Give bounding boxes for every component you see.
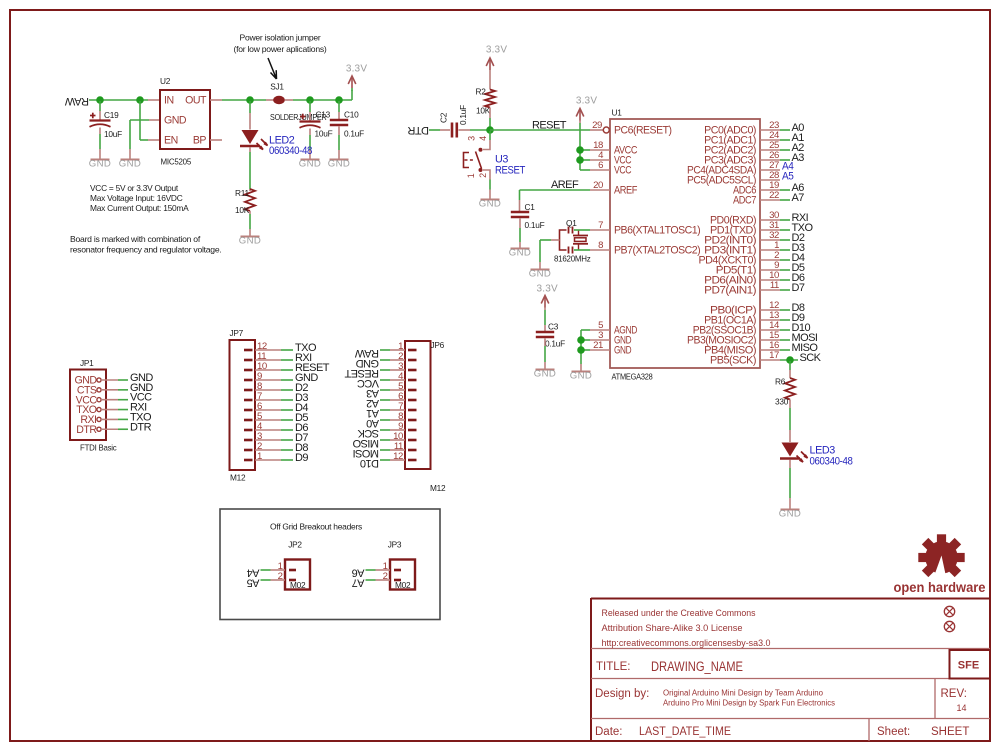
svg-text:A7: A7: [792, 192, 805, 204]
svg-text:81620MHz: 81620MHz: [554, 254, 591, 264]
svg-text:DRAWING_NAME: DRAWING_NAME: [651, 659, 743, 674]
svg-text:C3: C3: [548, 322, 559, 332]
open hardware gear logo: [918, 534, 964, 584]
R11 lower wire: [249, 211, 251, 214]
svg-text:GND: GND: [328, 158, 351, 169]
svg-text:DTR: DTR: [407, 124, 429, 136]
svg-text:JP1: JP1: [80, 358, 94, 368]
svg-text:Power isolation jumper: Power isolation jumper: [240, 33, 321, 43]
svg-text:GND: GND: [89, 158, 112, 169]
JP7 pin 8 / net D2: [244, 389, 253, 392]
capacitor C13: [300, 114, 321, 128]
JP7 pin 1 / net D9: [244, 459, 253, 462]
svg-text:SHEET: SHEET: [931, 726, 969, 738]
node junction RESET: [486, 126, 494, 134]
JP6 pin 9 / net SCK (mirrored label): [408, 429, 417, 432]
crystal Q1 element: [573, 230, 588, 250]
U1 pin 6 VCC: [590, 169, 610, 171]
capacitor C13 lower wire: [309, 129, 311, 136]
svg-text:3.3V: 3.3V: [537, 284, 559, 295]
svg-text:(for low power aplications): (for low power aplications): [234, 44, 328, 54]
svg-text:GND: GND: [614, 345, 632, 357]
svg-text:0.1uF: 0.1uF: [545, 339, 565, 349]
node junction GND pin3: [577, 336, 585, 344]
ground under U2 GND: [119, 158, 142, 169]
JP7 pin 10 / net RESET: [244, 369, 253, 372]
svg-text:EN: EN: [164, 135, 178, 147]
node junction LED2 branch: [246, 96, 254, 104]
svg-text:open hardware: open hardware: [894, 580, 986, 595]
JP7 pin 7 / net D3: [244, 399, 253, 402]
R2 upper stub: [489, 70, 491, 90]
svg-text:3.3V: 3.3V: [346, 64, 368, 75]
svg-text:FTDI Basic: FTDI Basic: [80, 443, 117, 453]
capacitor C10: [330, 120, 348, 125]
supply 3.3V at C3: [537, 284, 559, 308]
svg-text:SFE: SFE: [958, 660, 979, 672]
svg-text:D10: D10: [360, 457, 379, 469]
svg-text:10uF: 10uF: [104, 129, 122, 139]
wire AGND rail: [581, 329, 590, 331]
svg-text:17: 17: [769, 350, 779, 361]
svg-text:14: 14: [957, 703, 967, 713]
solder jumper SJ1: [266, 99, 274, 101]
svg-text:GND: GND: [779, 508, 802, 519]
svg-text:SJ1: SJ1: [270, 82, 284, 92]
U1 pin 5 AGND: [590, 329, 610, 331]
svg-text:RAW: RAW: [64, 95, 89, 107]
svg-text:PB6(XTAL1TOSC1): PB6(XTAL1TOSC1): [614, 225, 700, 237]
SFE box: [950, 650, 991, 679]
svg-text:JP6: JP6: [431, 340, 445, 350]
node junction AVCC: [576, 146, 584, 154]
capacitor C13 wire: [309, 101, 311, 112]
annotation arrow to SJ1: [268, 58, 277, 79]
svg-text:RESET: RESET: [532, 120, 567, 132]
svg-text:R2: R2: [476, 87, 487, 97]
svg-text:M02: M02: [290, 580, 306, 590]
svg-text:AREF: AREF: [551, 179, 579, 191]
switch U3 lever: [476, 152, 482, 169]
title block dividers: [591, 649, 990, 742]
switch U3 upper contact: [479, 148, 483, 152]
svg-text:IN: IN: [164, 95, 174, 107]
JP6 pin 7 / net A1 (mirrored label): [408, 409, 417, 412]
svg-text:3: 3: [467, 136, 477, 141]
connector JP6 box: [405, 341, 431, 469]
svg-text:A5: A5: [782, 171, 794, 183]
JP6 pin 1 / net RAW (mirrored label): [408, 349, 417, 352]
ground under C3: [534, 368, 557, 379]
svg-text:A5: A5: [247, 576, 260, 588]
svg-text:12: 12: [393, 451, 403, 462]
JP6 pin 12 / net D10 (mirrored label): [408, 459, 417, 462]
supply 3.3V top right: [346, 64, 368, 89]
svg-text:ADC7: ADC7: [733, 195, 757, 207]
circled-x icon 2: [944, 621, 954, 631]
connector JP7 box: [230, 340, 256, 470]
resistor R11: [245, 189, 255, 211]
JP7 pin 6 / net D4: [244, 409, 253, 412]
supply 3.3V above R2: [486, 45, 508, 71]
svg-text:LAST_DATE_TIME: LAST_DATE_TIME: [639, 726, 731, 738]
LED3 lower wire: [789, 460, 791, 469]
svg-text:JP3: JP3: [388, 540, 402, 550]
svg-text:4: 4: [478, 136, 488, 141]
svg-text:U1: U1: [612, 108, 623, 118]
JP7 pin 2 / net D8: [244, 449, 253, 452]
circled-x icon 1: [944, 606, 954, 616]
svg-text:BP: BP: [193, 135, 207, 147]
svg-text:060340-48: 060340-48: [810, 456, 853, 468]
LED3: [780, 443, 808, 463]
capacitor C1: [511, 212, 529, 217]
svg-text:3.3V: 3.3V: [486, 45, 508, 56]
node junction at C19: [96, 96, 104, 104]
svg-text:Released under the Creative Co: Released under the Creative Commons: [602, 608, 756, 619]
crystal Q1 bottom cap: [569, 247, 573, 254]
svg-text:8: 8: [598, 240, 603, 251]
svg-text:2: 2: [383, 571, 388, 582]
regulator U2 box: [160, 90, 210, 149]
svg-text:R6: R6: [775, 377, 786, 387]
svg-text:GND: GND: [239, 235, 262, 246]
JP6 pin 8 / net A0 (mirrored label): [408, 419, 417, 422]
JP6 pin 5 / net A3 (mirrored label): [408, 389, 417, 392]
svg-text:GND: GND: [570, 370, 593, 381]
svg-text:11: 11: [770, 280, 779, 291]
svg-text:2: 2: [478, 173, 488, 178]
svg-text:330: 330: [775, 397, 789, 407]
svg-text:Max Current Output: 150mA: Max Current Output: 150mA: [90, 203, 189, 213]
ground under C13: [299, 158, 322, 169]
JP7 pin 5 / net D5: [244, 419, 253, 422]
svg-text:AREF: AREF: [614, 185, 638, 197]
connector JP1 box: [70, 370, 106, 441]
node junction C13: [306, 96, 314, 104]
wire SJ1 to 3.3V: [293, 99, 352, 101]
wire U2 GND pin loop: [149, 119, 160, 121]
capacitor C2: [452, 123, 457, 138]
supply 3.3V at U1: [576, 96, 598, 121]
svg-text:0.1uF: 0.1uF: [344, 129, 364, 139]
title block outline: [591, 598, 990, 741]
wire U2 OUT to SJ1: [210, 99, 222, 101]
svg-text:R11: R11: [235, 188, 249, 198]
svg-text:Date:: Date:: [595, 726, 623, 738]
svg-text:3.3V: 3.3V: [576, 96, 598, 107]
capacitor C3 lower wire: [544, 339, 546, 347]
svg-text:D9: D9: [295, 452, 308, 464]
svg-text:resonator frequency and regula: resonator frequency and regulator voltag…: [70, 245, 221, 255]
svg-text:Original Arduino Mini Design b: Original Arduino Mini Design by Team Ard…: [663, 689, 824, 698]
svg-text:20: 20: [593, 180, 603, 191]
svg-text:7: 7: [598, 220, 603, 231]
svg-text:JP2: JP2: [288, 540, 302, 550]
resistor R2: [485, 90, 495, 108]
svg-text:GND: GND: [529, 268, 552, 279]
svg-text:M12: M12: [430, 483, 446, 493]
node junction at EN branch: [136, 96, 144, 104]
ground under AGND rail: [570, 370, 593, 381]
svg-text:C2: C2: [439, 112, 449, 123]
ground under C10: [328, 158, 351, 169]
resistor R6: [785, 378, 795, 400]
svg-text:DTR: DTR: [130, 421, 152, 433]
svg-text:http:creativecommons.orglicens: http:creativecommons.orglicensesby-sa3.0: [602, 638, 771, 649]
svg-text:VCC: VCC: [614, 165, 632, 177]
svg-text:DTR: DTR: [76, 424, 97, 436]
svg-text:JP7: JP7: [230, 328, 244, 338]
wire crystal ground: [551, 239, 560, 241]
svg-text:Board is marked with combinati: Board is marked with combination of: [70, 234, 201, 244]
R2 lower wire: [489, 108, 491, 119]
JP7 pin 3 / net D7: [244, 439, 253, 442]
crystal Q1 top cap: [569, 227, 573, 234]
svg-text:1: 1: [466, 173, 476, 178]
svg-text:Arduino Pro Mini Design by Spa: Arduino Pro Mini Design by Spark Fun Ele…: [663, 699, 835, 708]
wire RAW to U2 IN: [89, 99, 148, 101]
LED2 wire: [249, 101, 251, 113]
capacitor C10 wire: [338, 101, 340, 112]
wire XTAL2: [574, 249, 590, 251]
U1 pin 4 VCC: [590, 159, 610, 161]
capacitor C19: [90, 113, 111, 127]
wire SCK to R6: [789, 361, 791, 370]
off grid breakout frame: [220, 509, 440, 620]
svg-text:PD7(AIN1): PD7(AIN1): [704, 285, 756, 297]
JP7 pin 11 / net RXI: [244, 359, 253, 362]
capacitor C1 lower wire: [519, 219, 521, 229]
node junction VCC: [576, 156, 584, 164]
U1 pin 3 GND: [590, 339, 610, 341]
svg-text:MIC5205: MIC5205: [161, 157, 192, 167]
wire RESET net: [490, 129, 590, 131]
svg-text:C1: C1: [525, 202, 536, 212]
svg-text:M12: M12: [230, 473, 246, 483]
R6 to LED3 wire: [789, 400, 791, 409]
svg-text:21: 21: [593, 340, 603, 351]
svg-text:GND: GND: [534, 368, 557, 379]
connector JP3 (nets A6 A7): [390, 560, 415, 590]
wire EN branch: [139, 101, 141, 140]
switch U3 lower contact: [479, 168, 483, 172]
svg-text:PB5(SCK): PB5(SCK): [710, 355, 756, 367]
LED2: [240, 130, 268, 150]
svg-text:C10: C10: [344, 110, 359, 120]
JP6 pin 11 / net MOSI (mirrored label): [408, 449, 417, 452]
U1 pin 20 AREF: [590, 189, 610, 191]
switch U3 body bracket: [464, 153, 475, 168]
svg-text:GND: GND: [509, 247, 532, 258]
U1 pin 8 PB7(XTAL2TOSC2): [590, 249, 610, 251]
wire C2 to RESET node: [459, 129, 471, 131]
JP6 pin 4 / net VCC (mirrored label): [408, 379, 417, 382]
LED2 to R11 wire: [249, 147, 251, 152]
svg-text:SCK: SCK: [800, 352, 822, 364]
svg-text:A7: A7: [352, 576, 365, 588]
svg-text:Off Grid Breakout headers: Off Grid Breakout headers: [270, 522, 362, 532]
wire XTAL1: [574, 229, 590, 231]
U1 pin 7 PB6(XTAL1TOSC1): [590, 229, 610, 231]
svg-text:Design by:: Design by:: [595, 688, 649, 700]
svg-text:GND: GND: [299, 158, 322, 169]
svg-text:22: 22: [769, 190, 779, 201]
ground under R11: [239, 235, 262, 246]
JP6 pin 3 / net RESET (mirrored label): [408, 369, 417, 372]
svg-text:GND: GND: [119, 158, 142, 169]
svg-text:GND: GND: [479, 198, 502, 209]
capacitor C19 lower wire: [99, 128, 101, 135]
svg-text:1: 1: [257, 451, 262, 462]
svg-text:29: 29: [592, 120, 602, 131]
JP7 pin 4 / net D6: [244, 429, 253, 432]
svg-text:GND: GND: [164, 115, 187, 127]
JP6 pin 10 / net MISO (mirrored label): [408, 439, 417, 442]
ground under C19: [89, 158, 112, 169]
connector JP2 (nets A4 A5): [285, 560, 310, 590]
switch U3 upper wire: [489, 131, 491, 140]
JP6 pin 2 / net GND (mirrored label): [408, 359, 417, 362]
svg-text:OUT: OUT: [185, 95, 207, 107]
svg-text:Attribution Share-Alike 3.0 Li: Attribution Share-Alike 3.0 License: [602, 623, 743, 634]
U1 pin 21 GND: [590, 349, 610, 351]
pin stub U2 BP: [210, 139, 222, 141]
svg-text:C13: C13: [316, 110, 331, 120]
wire 3.3V to C3: [544, 308, 546, 311]
switch U3 lower wire: [483, 170, 490, 180]
op-amp U1 box: [610, 119, 760, 368]
JP7 pin 9 / net GND: [244, 379, 253, 382]
node junction GND pin21: [577, 346, 585, 354]
ground under LED3: [779, 508, 802, 519]
svg-text:PC6(RESET): PC6(RESET): [614, 125, 672, 137]
svg-text:RESET: RESET: [495, 165, 526, 177]
svg-text:M02: M02: [395, 580, 411, 590]
capacitor C10 lower wire: [338, 127, 340, 136]
svg-text:D7: D7: [792, 282, 805, 294]
svg-text:2: 2: [278, 571, 283, 582]
JP7 pin 12 / net TXO: [244, 349, 253, 352]
svg-text:10uF: 10uF: [315, 129, 333, 139]
svg-text:TITLE:: TITLE:: [596, 661, 631, 673]
svg-text:Sheet:: Sheet:: [877, 726, 910, 738]
svg-text:ATMEGA328: ATMEGA328: [612, 372, 654, 382]
U1 pin 29 PC6(RESET) with bubble: [590, 129, 603, 131]
node junction C10: [335, 96, 343, 104]
capacitor C3: [536, 332, 554, 337]
svg-text:REV:: REV:: [941, 688, 967, 700]
svg-text:Max Voltage Input: 16VDC: Max Voltage Input: 16VDC: [90, 193, 183, 203]
U1 pin 18 AVCC: [590, 149, 610, 151]
pin stub U2 IN: [148, 99, 161, 101]
svg-text:U2: U2: [160, 76, 171, 86]
svg-text:0.1uF: 0.1uF: [458, 105, 468, 125]
svg-text:VCC = 5V or 3.3V Output: VCC = 5V or 3.3V Output: [90, 183, 179, 193]
svg-text:0.1uF: 0.1uF: [525, 220, 545, 230]
svg-text:10K: 10K: [235, 205, 250, 215]
JP6 pin 6 / net A2 (mirrored label): [408, 399, 417, 402]
svg-text:C19: C19: [104, 110, 119, 120]
capacitor C19 wire down: [99, 101, 101, 111]
wire DTR to C2: [429, 129, 440, 131]
svg-text:PB7(XTAL2TOSC2): PB7(XTAL2TOSC2): [614, 245, 700, 257]
wire 3.3V rail to VCC pins: [579, 121, 581, 124]
svg-text:6: 6: [598, 160, 603, 171]
ground under U3: [479, 198, 502, 209]
ground under Q1: [529, 268, 552, 279]
wire AREF net: [520, 189, 591, 191]
svg-text:060340-48: 060340-48: [269, 145, 312, 157]
crystal Q1 left bracket: [560, 230, 567, 250]
svg-text:10K: 10K: [476, 106, 491, 116]
ground under C1: [509, 247, 532, 258]
